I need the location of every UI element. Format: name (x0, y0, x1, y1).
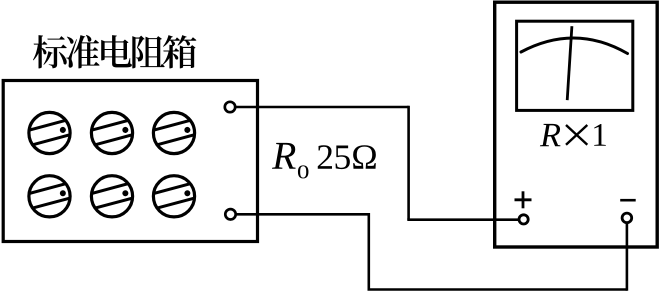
knob 6 slot lines and pointer dot (152, 183, 195, 208)
knob 3 dial circle (153, 112, 194, 153)
knob 3 slot lines and pointer dot (152, 120, 195, 145)
meter needle (567, 26, 572, 100)
knob 5 dial circle (91, 176, 132, 217)
wire: bottom horizontal run (368, 288, 627, 291)
terminal: box lower binding post (225, 209, 235, 219)
knob 1 dial circle (29, 112, 70, 153)
multimeter outline (495, 2, 658, 247)
knob 2 slot lines and pointer dot (90, 120, 133, 145)
knob 4 dial circle (29, 176, 70, 217)
wire: box bottom terminal horizontal (231, 213, 369, 216)
wire: horizontal into plus terminal (407, 218, 523, 221)
meter scale arc (521, 38, 628, 54)
multiply sign of R×1 (566, 125, 587, 145)
label: 标准电阻箱 (standard resistance box title) (33, 35, 196, 69)
terminal: box upper binding post (225, 102, 235, 112)
label R0 25Ω (272, 143, 376, 178)
meter display window (517, 21, 633, 110)
minus sign (620, 199, 636, 202)
wire: box top terminal to vertical drop (230, 106, 409, 109)
knob 2 dial circle (91, 112, 132, 153)
terminal: multimeter minus (622, 213, 632, 223)
wire: up into minus terminal (626, 218, 629, 291)
wire: vertical down to bottom run (367, 213, 370, 290)
plus sign (515, 198, 532, 201)
terminal: multimeter plus (519, 215, 528, 224)
label R of R×1 (540, 124, 561, 146)
resistance box R0 outline (3, 81, 257, 242)
wire: vertical drop to plus lead (407, 106, 410, 220)
knob 1 slot lines and pointer dot (28, 120, 71, 145)
knob 6 dial circle (153, 176, 194, 217)
knob 5 slot lines and pointer dot (90, 183, 133, 208)
knob 4 slot lines and pointer dot (28, 183, 71, 208)
digit 1 of R×1 (594, 124, 606, 146)
